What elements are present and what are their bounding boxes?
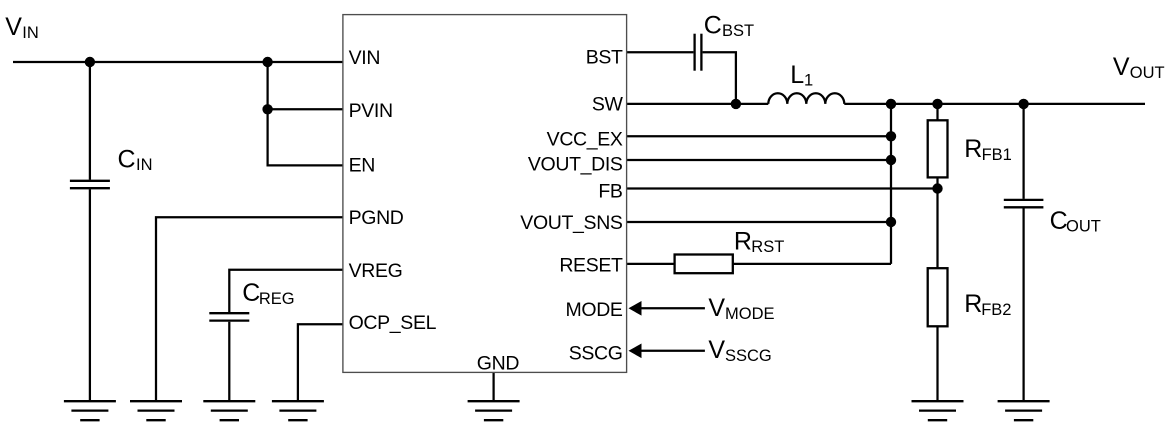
ground (C_IN) [64,401,116,420]
wire VREG [229,270,343,312]
wire COUT bottom [1022,208,1024,401]
svg-text:FB1: FB1 [982,146,1012,164]
ground (PGND) [130,401,182,420]
wire BST [627,51,694,53]
wire PVIN/EN vertical [268,62,343,165]
svg-text:V: V [5,13,22,41]
svg-text:PVIN: PVIN [349,100,393,122]
svg-text:OUT: OUT [1130,64,1165,82]
wire PGND [156,217,343,401]
svg-text:R: R [964,290,982,318]
wire RFB1 top [936,104,938,120]
wire VIN input rail [13,61,343,63]
svg-text:FB2: FB2 [981,301,1011,319]
wire CIN branch top [89,62,91,180]
svg-text:R: R [734,227,752,255]
svg-text:BST: BST [722,22,754,40]
svg-text:REG: REG [259,290,295,308]
svg-text:L: L [790,61,804,89]
svg-text:SSCG: SSCG [569,343,623,365]
svg-text:VOUT_DIS: VOUT_DIS [528,154,623,176]
svg-text:MODE: MODE [565,299,622,321]
wire OCP_SEL [298,324,343,401]
wire VCC_EX [627,135,891,137]
svg-text:OUT: OUT [1066,218,1101,236]
svg-text:PGND: PGND [349,207,404,229]
wire CIN branch bottom [89,189,91,401]
wire MODE arrow line [640,307,705,309]
wire RESET left [627,263,675,265]
svg-text:IN: IN [136,156,153,174]
node VOUT_SNS junction [886,217,896,227]
node SW/COUT junction [1018,99,1028,109]
svg-text:BST: BST [586,46,623,68]
capacitor C_OUT [1004,200,1044,207]
wire SW to inductor [627,103,769,105]
wire RFB1 bottom [936,177,938,188]
svg-text:SSCG: SSCG [725,347,772,365]
svg-text:OCP_SEL: OCP_SEL [349,312,437,334]
wire BST to SW corner [703,52,736,104]
capacitor C_REG [209,313,249,320]
svg-text:VCC_EX: VCC_EX [547,128,623,150]
node BST/SW junction [731,99,741,109]
ground (R_FB2) [912,401,964,420]
ground (OCP_SEL) [272,401,324,420]
capacitor C_BST [695,34,702,71]
wire CREG bottom [228,322,230,402]
wire COUT top [1022,104,1024,199]
node PVIN junction [262,104,272,114]
wire VOUT_DIS [627,159,891,161]
wire RESET right [733,263,891,265]
node VIN/CIN junction [85,57,95,67]
svg-text:C: C [242,279,260,307]
svg-text:VOUT_SNS: VOUT_SNS [520,212,623,234]
IC body U1 [343,15,627,373]
svg-text:VIN: VIN [349,47,380,69]
wire VOUT_SNS [627,221,891,223]
svg-text:1: 1 [804,72,813,90]
svg-text:C: C [118,145,136,173]
node FB junction [932,183,942,193]
svg-text:RESET: RESET [559,255,623,277]
svg-text:SW: SW [592,94,624,116]
resistor R_FB2 [928,268,948,326]
inductor L1 [768,93,844,104]
svg-text:V: V [708,336,725,364]
arrowhead SSCG [629,344,642,359]
node VOUT_DIS junction [886,155,896,165]
node SW/RFB1 junction [932,99,942,109]
resistor R_RST [675,255,733,274]
node VCC_EX junction [886,131,896,141]
svg-text:VREG: VREG [349,260,403,282]
arrowhead MODE [629,301,642,316]
wire RFB2 bottom [936,326,938,401]
ground (GND pin) [468,401,520,420]
wire PVIN [268,108,343,110]
capacitor C_IN [70,181,110,188]
wire FB [627,187,938,189]
svg-text:RST: RST [751,238,784,256]
node VIN/PVIN junction [262,57,272,67]
wire VOUT rail [844,103,1145,105]
wire RFB2 top [936,189,938,269]
resistor R_FB1 [928,120,948,177]
ground (C_OUT) [998,401,1050,420]
wire sense bus vertical [890,104,892,264]
svg-text:EN: EN [349,154,375,176]
svg-text:C: C [1050,207,1068,235]
node SW/sense junction [886,99,896,109]
wire GND pin [492,372,494,401]
svg-text:V: V [708,294,725,322]
svg-text:C: C [704,11,722,39]
svg-text:MODE: MODE [725,305,775,323]
svg-text:R: R [964,135,982,163]
svg-text:V: V [1113,53,1130,81]
svg-text:GND: GND [477,352,520,374]
ground (C_REG) [203,401,255,420]
svg-text:FB: FB [598,180,622,202]
wire SSCG arrow line [640,350,705,352]
svg-text:IN: IN [22,24,39,42]
